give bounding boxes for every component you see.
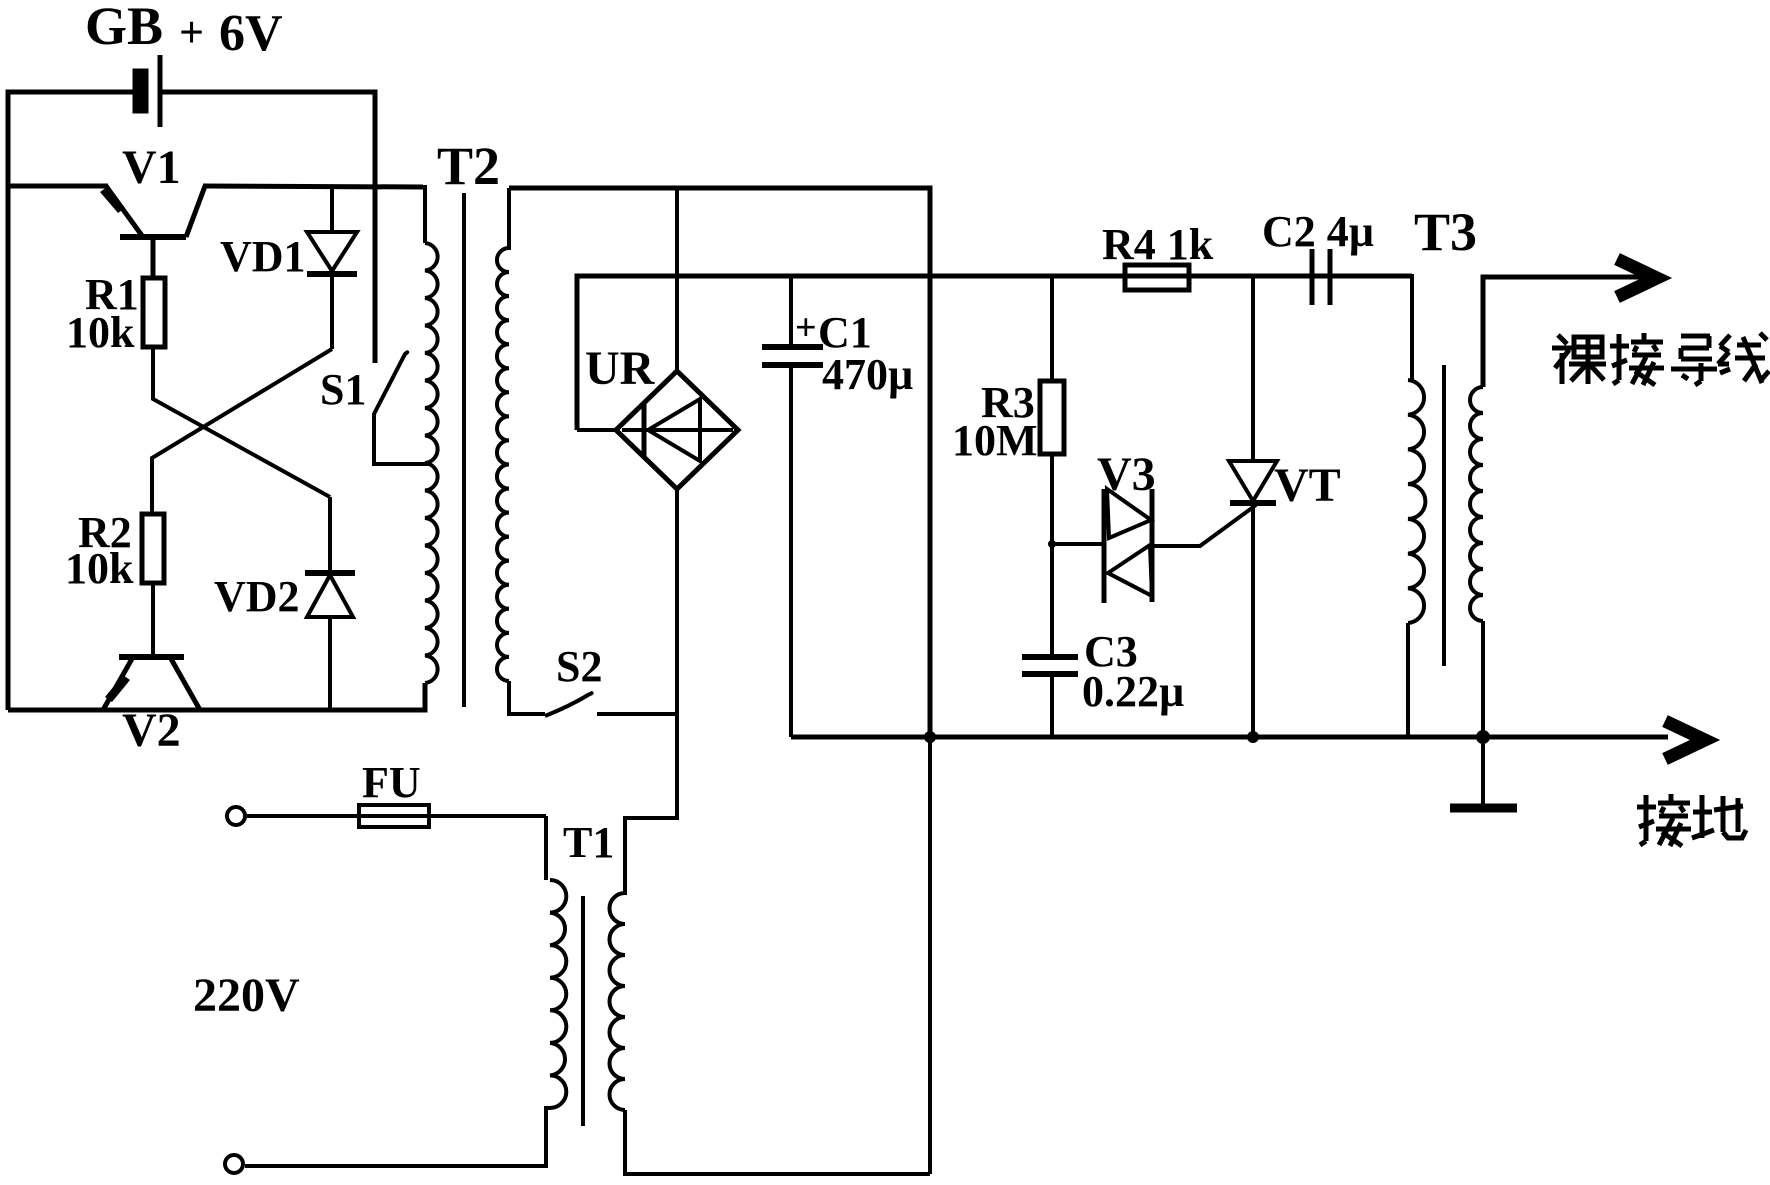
node junction x930 ground rail xyxy=(924,731,936,743)
svg-text:T1: T1 xyxy=(563,818,614,867)
battery +6V value label xyxy=(179,5,283,62)
wire V3 to VT gate xyxy=(1152,505,1256,546)
resistor R3 value 10M xyxy=(952,416,1038,465)
transformer T1 primary bottom lead xyxy=(245,1108,550,1166)
rectifier UR label xyxy=(585,342,656,395)
svg-text:10k: 10k xyxy=(66,308,135,357)
diode VD1 label xyxy=(220,232,306,281)
node junction VT cathode ground rail xyxy=(1247,731,1259,743)
node junction T3 ground rail xyxy=(1476,730,1490,744)
capacitor C2 label xyxy=(1262,207,1374,256)
transformer T1 secondary top lead xyxy=(623,818,627,895)
svg-text:VT: VT xyxy=(1274,459,1341,512)
svg-text:UR: UR xyxy=(585,342,656,395)
thyristor VT xyxy=(1229,276,1277,737)
capacitor C3 xyxy=(1022,657,1078,737)
wire DC plus rail xyxy=(577,276,1412,430)
rectifier UR xyxy=(616,371,738,489)
svg-text:220V: 220V xyxy=(193,969,300,1022)
resistor R3 xyxy=(1040,381,1064,454)
switch S2 label xyxy=(556,642,602,691)
capacitor C1 label xyxy=(818,308,872,357)
label earth ground (Chinese) xyxy=(1637,794,1746,846)
battery GB label xyxy=(85,0,163,56)
label bare wire output (Chinese) xyxy=(1552,333,1769,385)
svg-text:S2: S2 xyxy=(556,642,602,691)
wire R3 to C3 xyxy=(1050,454,1054,657)
arrow output top xyxy=(1617,259,1657,297)
svg-text:T3: T3 xyxy=(1414,202,1477,262)
fuse FU label xyxy=(362,758,421,807)
resistor R4 xyxy=(1125,265,1189,290)
transformer T2 primary top lead xyxy=(423,187,425,243)
wire VD1 to cross to R2 xyxy=(152,349,332,514)
transformer T1 secondary bottom lead xyxy=(625,1110,930,1174)
switch S2 xyxy=(545,693,592,716)
battery GB xyxy=(135,55,160,127)
svg-text:+: + xyxy=(179,8,204,57)
svg-text:10M: 10M xyxy=(952,416,1038,465)
transistor V1 xyxy=(100,186,205,280)
ground xyxy=(1450,737,1517,808)
resistor R2 label xyxy=(78,508,132,557)
transformer T2 core xyxy=(462,193,466,707)
resistor R2 xyxy=(142,514,164,583)
fuse FU xyxy=(245,805,546,827)
capacitor C1 plus sign xyxy=(795,307,817,349)
transformer T3 secondary top lead xyxy=(1483,277,1650,387)
wire R2 to V2 base xyxy=(151,583,155,657)
resistor R3 label xyxy=(981,378,1035,427)
transformer T2 label xyxy=(437,136,500,196)
resistor R1 label xyxy=(85,270,139,319)
wire R3 C3 node to V3 xyxy=(1052,542,1104,546)
svg-text:C2 4µ: C2 4µ xyxy=(1262,207,1374,256)
transistor V1 label xyxy=(122,141,181,194)
resistor R1 value 10k xyxy=(66,308,135,357)
transformer T2 secondary winding xyxy=(497,248,509,681)
wire S2 to UR bottom line xyxy=(597,712,677,716)
transformer T1 secondary winding xyxy=(609,893,625,1110)
wire rail to R3 xyxy=(1050,276,1054,381)
svg-text:0.22µ: 0.22µ xyxy=(1082,667,1184,716)
svg-text:S1: S1 xyxy=(320,365,366,414)
svg-text:6V: 6V xyxy=(219,5,283,62)
svg-text:VD2: VD2 xyxy=(214,572,300,621)
resistor R4 label xyxy=(1102,220,1214,269)
transformer T2 primary winding xyxy=(425,243,438,683)
transformer T1 primary winding xyxy=(550,880,566,1108)
arrow output bottom xyxy=(1665,721,1705,759)
switch S1 xyxy=(374,352,430,464)
diode VD1 xyxy=(307,186,357,349)
capacitor C2 xyxy=(1312,249,1330,305)
transformer T3 secondary winding xyxy=(1470,387,1483,621)
svg-text:+: + xyxy=(795,307,817,349)
transformer T1 core xyxy=(581,896,585,1126)
diode VD2 label xyxy=(214,572,300,621)
capacitor C1 xyxy=(762,276,823,737)
wire bottom left rail xyxy=(8,683,425,710)
transformer T3 primary lead xyxy=(1330,276,1412,380)
svg-text:VD1: VD1 xyxy=(220,232,306,281)
svg-text:V1: V1 xyxy=(122,141,181,194)
wire R1 to cross xyxy=(153,347,330,497)
switch S1 label xyxy=(320,365,366,414)
capacitor C1 value 470u xyxy=(822,350,913,399)
svg-text:T2: T2 xyxy=(437,136,500,196)
terminal 220V top xyxy=(227,807,245,825)
transistor V2 label xyxy=(122,704,181,757)
transformer T3 label xyxy=(1414,202,1477,262)
source 220V label xyxy=(193,969,300,1022)
transformer T3 core xyxy=(1442,365,1446,666)
wire ground rail xyxy=(791,735,1668,740)
wire UR left to rail xyxy=(577,428,616,432)
transformer T3 primary winding xyxy=(1408,380,1425,623)
wire UR bottom to T1 xyxy=(625,489,677,893)
wire V1 collector to T2 xyxy=(203,186,423,187)
transistor V2 xyxy=(103,657,200,710)
wire UR top to T2 rail xyxy=(675,188,679,371)
diac V3 label xyxy=(1097,448,1156,501)
wire right return riser xyxy=(928,737,932,1174)
capacitor C3 value 0.22u xyxy=(1082,667,1184,716)
svg-text:FU: FU xyxy=(362,758,421,807)
wire V1 emitter to left rail xyxy=(8,184,108,189)
svg-text:R4 1k: R4 1k xyxy=(1102,220,1214,269)
svg-text:470µ: 470µ xyxy=(822,350,913,399)
transformer T2 secondary bottom lead xyxy=(509,681,545,714)
diode VD2 xyxy=(305,497,355,710)
transformer T3 secondary bottom lead xyxy=(1481,621,1485,737)
svg-text:GB: GB xyxy=(85,0,163,56)
wire FU to T1 primary xyxy=(544,816,548,880)
resistor R1 xyxy=(143,278,165,347)
resistor R2 value 10k xyxy=(65,544,134,593)
diac V3 xyxy=(1104,489,1152,603)
node junction R3 V3 xyxy=(1048,540,1056,548)
wire T2 top to right corner xyxy=(509,188,930,737)
transformer T3 primary bottom lead xyxy=(1406,623,1410,737)
svg-text:10k: 10k xyxy=(65,544,134,593)
wire battery top rail xyxy=(8,92,375,710)
terminal 220V bottom xyxy=(225,1155,243,1173)
transformer T1 label xyxy=(563,818,614,867)
thyristor VT label xyxy=(1274,459,1341,512)
capacitor C3 label xyxy=(1084,627,1138,676)
transformer T2 secondary top lead xyxy=(507,188,511,250)
